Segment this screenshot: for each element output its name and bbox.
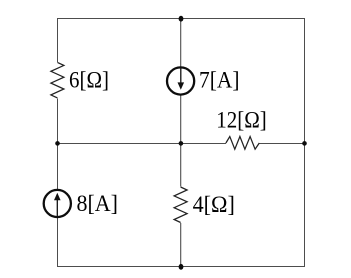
- current source U 8A: [44, 190, 71, 217]
- resistor R 6ohm: [50, 62, 66, 99]
- svg-text:4[Ω]: 4[Ω]: [193, 192, 235, 217]
- node dot left middle: [55, 141, 60, 146]
- wire top horizontal: [57, 18, 305, 20]
- wire right vertical: [304, 18, 306, 267]
- wire bottom horizontal: [57, 266, 305, 268]
- node dot bottom middle: [179, 264, 184, 270]
- svg-text:6[Ω]: 6[Ω]: [69, 67, 109, 92]
- resistor R 12ohm: [226, 135, 260, 151]
- resistor R 4ohm: [173, 187, 189, 224]
- wire middle vertical: [180, 18, 182, 267]
- svg-text:7[A]: 7[A]: [199, 67, 240, 92]
- svg-text:8[A]: 8[A]: [77, 191, 119, 216]
- svg-text:12[Ω]: 12[Ω]: [216, 108, 266, 133]
- wire middle horizontal: [57, 143, 305, 145]
- node dot right middle: [302, 141, 307, 146]
- current source U 7A: [167, 67, 194, 94]
- wire left vertical: [57, 18, 59, 267]
- node dot top middle: [179, 16, 184, 22]
- node dot center: [179, 141, 184, 146]
